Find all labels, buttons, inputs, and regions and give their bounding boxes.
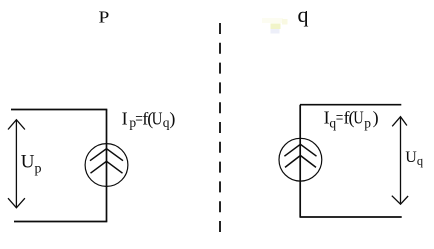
wire: right network top: [300, 104, 401, 106]
wire: left network top: [11, 109, 107, 111]
voltage arrow Uq (double-headed): [392, 117, 408, 205]
wire: left network bottom: [14, 221, 107, 223]
controlled current source Iq (right circle with double chevron): [279, 138, 322, 181]
artifact smudge near q: [262, 18, 288, 34]
controlled current source Ip (left circle with double chevron): [85, 144, 128, 187]
wire: right network left vertical: [299, 105, 301, 217]
wire: right network bottom: [300, 216, 402, 218]
wire: left network right vertical: [106, 110, 108, 222]
svg-text:q: q: [298, 2, 309, 27]
boundary dashed line between networks P and q: [219, 23, 221, 234]
svg-text:P: P: [99, 8, 110, 27]
voltage arrow Up (double-headed): [8, 120, 25, 208]
